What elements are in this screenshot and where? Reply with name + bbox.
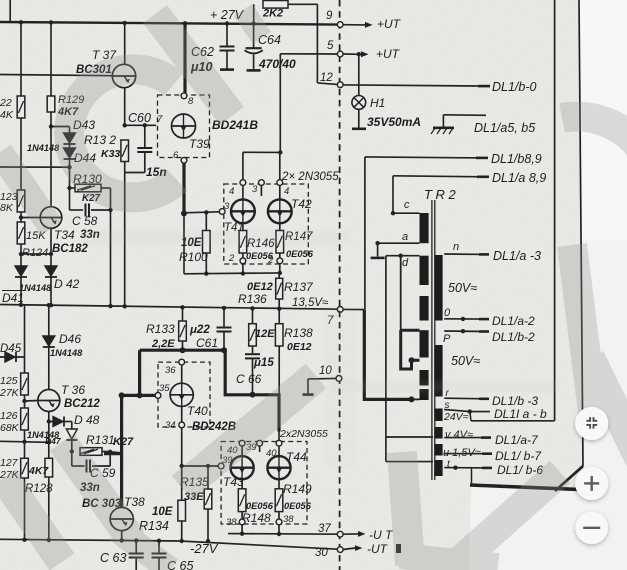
svg-text:0E056: 0E056 (286, 249, 314, 259)
wire rail-B upper (50, 22, 52, 96)
junction bus R135 (206, 539, 210, 543)
junction bold cross (137, 392, 143, 398)
resistor R100 (203, 231, 211, 254)
diode D42a (15, 266, 27, 276)
wire join R132-C60 (125, 172, 145, 174)
wire tap u left (386, 461, 433, 463)
resistor R127 (21, 458, 29, 478)
junction bus railA (19, 303, 23, 307)
wire R126 bottom (24, 430, 26, 442)
wire pin36 to T40 (181, 365, 183, 383)
wire rail-A lower (24, 305, 26, 373)
tick DL1/b-0 (478, 85, 490, 88)
wire R149 bottom (278, 512, 280, 519)
terminal T40 pin36 (179, 359, 185, 365)
resistor R129 (47, 96, 55, 112)
wire C65 down (158, 558, 160, 570)
transistor T36 (38, 390, 60, 412)
wire R147 bottom (279, 253, 281, 258)
capacitor C66 (245, 353, 260, 355)
watermark mid diagonal (182, 376, 316, 488)
tick b-7 (482, 452, 492, 455)
svg-text:DL1/b8,9: DL1/b8,9 (491, 152, 542, 166)
wire DL1/a8,9 (393, 176, 484, 177)
diode D42 (45, 266, 57, 276)
svg-text:4: 4 (284, 186, 289, 197)
terminal 9 (337, 22, 343, 28)
watermark bottom-left (62, 442, 132, 540)
junction y167 (67, 165, 71, 169)
capacitor C60 (137, 147, 152, 149)
svg-text:R138: R138 (284, 326, 313, 340)
wire R136-C66 (252, 346, 254, 353)
wire D48-D47 (64, 421, 72, 423)
capacitor C64 top lead (253, 24, 255, 48)
wire D47 top (71, 422, 73, 430)
junction rail-C64 (251, 22, 255, 26)
wire R123-R124 (20, 212, 22, 222)
dashed box T39 (158, 95, 210, 158)
wire R148 bottom (241, 512, 243, 519)
wire C60 bottom lead (144, 152, 146, 173)
wire DL1/b-3 (444, 397, 486, 400)
svg-text:DL1/b-0: DL1/b-0 (492, 80, 537, 94)
wire pin3 stub (260, 186, 262, 197)
svg-text:2: 2 (267, 255, 274, 266)
diode D46 (43, 336, 55, 346)
wire down to pin 12 (316, 4, 318, 83)
capacitor C62 (220, 46, 235, 48)
junction R135 top (206, 464, 210, 468)
svg-text:R136: R136 (238, 292, 267, 306)
junction C58 right (108, 208, 112, 212)
capacitor C64 plus plate (246, 47, 262, 49)
TR2 primary windings (420, 213, 429, 243)
junction b-2 (461, 329, 465, 333)
resistor R147 (276, 231, 284, 254)
terminal pin4 T41 (240, 180, 246, 186)
wire C66 bottom (252, 358, 254, 394)
thick bottom line (470, 485, 578, 489)
svg-text:2: 2 (228, 253, 235, 264)
svg-text:K33: K33 (101, 148, 120, 160)
svg-text:R133: R133 (146, 322, 175, 336)
svg-text:24V≈: 24V≈ (443, 411, 469, 423)
wire emitter bus y273 (184, 272, 280, 275)
resistor R124 (17, 222, 25, 244)
terminal 12 (337, 82, 343, 88)
svg-text:d: d (402, 257, 409, 269)
wire -UT 30 (343, 548, 355, 550)
terminal T39 pin6 (181, 157, 187, 163)
svg-text:DL1I a - b: DL1I a - b (494, 407, 547, 421)
svg-text:R137: R137 (284, 280, 314, 294)
wire tap s (444, 410, 470, 412)
svg-text:C60: C60 (128, 111, 151, 125)
svg-text:P: P (443, 333, 451, 345)
svg-text:37: 37 (318, 523, 331, 535)
wire T38 emitter (121, 531, 123, 541)
resistor R133 (179, 321, 187, 341)
wire T40 to pin34 (181, 406, 183, 422)
wire bold x121 down (120, 395, 123, 453)
wire R132 bottom (124, 162, 126, 173)
junction C61 bold (221, 347, 227, 353)
wire bold left drop (138, 350, 141, 395)
tick a-7 (481, 436, 491, 439)
junction bus T38 (120, 538, 124, 542)
terminal pin4 T42 (277, 180, 283, 186)
wire bold T39 collector (183, 23, 186, 93)
wire R146 bottom (242, 253, 244, 258)
arrow -UT 37 (358, 531, 366, 537)
wire emitter bus to 37 (228, 533, 337, 536)
terminal pin40 T43 (239, 440, 245, 446)
terminal 7 (337, 307, 343, 313)
svg-text:12: 12 (320, 72, 333, 84)
junction bus x124 (123, 304, 127, 308)
wire R135 lead (207, 466, 209, 489)
watermark letter C (69, 69, 177, 197)
wire to terminal 12 (317, 83, 337, 85)
svg-text:C 63: C 63 (100, 551, 126, 565)
transistor T44 (267, 456, 290, 479)
svg-text:K27: K27 (113, 436, 134, 448)
tick a-2 (479, 318, 489, 321)
svg-text:3: 3 (224, 201, 230, 212)
svg-text:T R 2: T R 2 (424, 187, 457, 202)
wire T44 emitter (278, 479, 280, 489)
wire DL1/a-2 (444, 318, 486, 320)
wire 13.5V bus (0, 305, 340, 310)
wire to terminal 5 (279, 54, 281, 153)
zoom in button (575, 467, 608, 500)
svg-text:0E056: 0E056 (246, 501, 274, 511)
junction C60 top (143, 123, 147, 127)
wire ground lead (442, 115, 444, 128)
wire tap v left (386, 436, 433, 438)
junction bus railB (49, 303, 53, 307)
junction tap r (409, 396, 415, 402)
svg-text:μ22: μ22 (189, 324, 210, 336)
wire C58 right (110, 188, 112, 210)
wire tap r (412, 398, 420, 400)
wire C58 right lead (91, 209, 111, 211)
wire comb down (385, 437, 387, 462)
junction bus R128 (47, 538, 51, 542)
wire pin40 to T44 (278, 446, 280, 456)
wire pin38b down (278, 525, 280, 534)
svg-text:T42: T42 (291, 197, 312, 211)
terminal pin38 T43 (239, 519, 245, 525)
transistor T41 (231, 199, 255, 223)
scan smudge bands (82, 230, 350, 245)
resistor R123 (17, 190, 25, 212)
junction R148 bus (240, 532, 244, 536)
junction bus x110 (108, 304, 112, 308)
svg-text:R124: R124 (22, 247, 48, 259)
wire rail-A upper (20, 22, 22, 96)
wire T34 emitter (50, 228, 52, 266)
diode D45 (5, 352, 15, 362)
terminal T40 pin35 (155, 393, 161, 399)
D41 overline (2, 290, 26, 292)
junction rail-R122 (19, 20, 23, 24)
wire x124 to bus (124, 173, 126, 307)
resistor R128 (45, 458, 53, 477)
svg-text:8K: 8K (0, 202, 14, 214)
svg-text:2,2E: 2,2E (151, 338, 175, 350)
wire R137 top (278, 273, 280, 278)
junction C61 (222, 306, 226, 310)
tick b89 (476, 157, 488, 160)
junction bus D46 (47, 303, 51, 307)
capacitor C65 lead (158, 541, 160, 553)
svg-text:6: 6 (173, 150, 179, 161)
wire T41 emitter (242, 223, 244, 230)
zoom out button (575, 512, 608, 545)
junction bus C63 (134, 538, 138, 542)
svg-text:T44: T44 (286, 450, 307, 464)
junction b-6 (453, 466, 457, 470)
resistor R146 (239, 231, 247, 254)
wire R134 top (181, 466, 183, 500)
junction rail-T37 (123, 21, 127, 25)
transistor T43 (231, 456, 254, 479)
wire -UT 37 (343, 533, 358, 535)
wire a89 down (392, 176, 394, 213)
transistor T42 (268, 199, 292, 223)
svg-text:125: 125 (0, 375, 18, 387)
terminal pin3 T41 base (219, 209, 225, 215)
wire R130 left lead (70, 187, 76, 189)
svg-text:DL1/b-2: DL1/b-2 (492, 330, 535, 344)
wire rail-A mid (20, 118, 22, 190)
wire DL1/b-0 (343, 85, 478, 86)
wire bold 13.5V to tap r (364, 310, 411, 400)
transistor T34 (40, 207, 62, 229)
wire bold tail to T44 (278, 432, 280, 441)
wire DL1/a-7 (444, 437, 489, 439)
wire D47 bottom (71, 440, 73, 452)
junction T42 bus (278, 271, 282, 275)
terminal pin2 T41 (240, 258, 246, 264)
svg-text:9: 9 (326, 10, 333, 22)
wire DL1/b-6 (444, 467, 490, 469)
wire R131 right lead (102, 451, 110, 453)
svg-text:470/40: 470/40 (258, 57, 296, 71)
junction T37-C60 (123, 123, 127, 127)
junction tap d (399, 254, 403, 258)
svg-text:2x2N3055: 2x2N3055 (279, 428, 328, 440)
wire to bold (110, 452, 121, 453)
junction bold corner (119, 392, 125, 398)
svg-text:v 4V≈: v 4V≈ (445, 429, 473, 441)
wire R127 bottom (24, 478, 26, 540)
junction R100 (204, 210, 208, 214)
resistor R131 (80, 448, 102, 456)
resistor R138 (275, 324, 283, 346)
wire link y254 (21, 253, 51, 255)
junction a-2 (461, 317, 465, 321)
dashed box T40 (158, 362, 210, 427)
wire T41 T42 collectors (243, 151, 280, 153)
connector dashed line (339, 0, 341, 570)
junction T39 emitter (181, 210, 187, 216)
wire b89 down (364, 157, 366, 310)
terminal pin2 T42 (277, 258, 283, 264)
svg-text:38: 38 (283, 514, 294, 525)
wire R125-R126 (24, 395, 26, 408)
svg-text:C61: C61 (196, 336, 218, 350)
ground (433, 127, 454, 130)
tick b-6 (482, 467, 492, 470)
capacitor C65 (152, 553, 167, 555)
wire pin2 down (242, 264, 244, 274)
svg-text:35: 35 (159, 383, 170, 394)
wire R127 top (24, 442, 26, 458)
wire +27V rail (0, 22, 340, 25)
svg-text:T40: T40 (187, 404, 208, 418)
svg-text:a: a (402, 231, 408, 243)
svg-text:4: 4 (229, 186, 234, 197)
junction y442 b (47, 440, 51, 444)
termination bar tap a (371, 257, 385, 260)
svg-text:DL1/a5, b5: DL1/a5, b5 (474, 121, 535, 135)
wire tap a (378, 242, 420, 244)
wire R128 top (48, 442, 50, 458)
junction R136 (250, 306, 254, 310)
svg-text:H1: H1 (370, 96, 385, 110)
svg-text:T 36: T 36 (61, 383, 85, 397)
wire 2K2 left lead (253, 4, 255, 23)
wire DL1/a-b (470, 411, 490, 413)
wire C63 down (135, 558, 137, 570)
wire D46 to T36 (48, 347, 50, 390)
wire D46 top (48, 305, 50, 336)
wire R134 bottom (181, 521, 183, 541)
junction D43 branch (49, 124, 53, 128)
wire pin40 to T43 (241, 446, 243, 456)
arrow -UT 30 (355, 545, 363, 551)
wire bold T39 emitter (182, 163, 185, 213)
wire R138 bottom (278, 346, 280, 395)
wire T37 emitter down (124, 88, 126, 126)
wire x110 to bus (110, 210, 112, 306)
wire C59 right lead (92, 465, 110, 467)
terminal 37 (337, 531, 343, 537)
resistor R149 (275, 489, 283, 512)
junction rail-T39 (183, 21, 187, 25)
svg-text:D45: D45 (0, 343, 22, 355)
wire +UT 5 (280, 53, 337, 55)
svg-text:7: 7 (157, 114, 163, 125)
svg-text:c: c (404, 199, 410, 211)
svg-text:27K: 27K (0, 387, 20, 399)
svg-text:μ15: μ15 (253, 357, 274, 369)
watermark right letters (562, 117, 627, 160)
wire T41 collector (242, 152, 244, 179)
wire bold to T40 (122, 394, 158, 397)
svg-text:5: 5 (327, 40, 334, 52)
wire DL1/b-7 (444, 453, 490, 455)
wire R133 top (182, 307, 184, 321)
svg-text:C 58: C 58 (72, 214, 98, 228)
svg-text:8: 8 (188, 96, 194, 107)
dashed box T41 T42 (224, 184, 308, 264)
C64 end bar (247, 69, 261, 72)
svg-text:+UT: +UT (377, 17, 402, 31)
wire D42 to bus (50, 277, 52, 306)
svg-text:30: 30 (315, 547, 328, 559)
junction y254 b (19, 252, 23, 256)
svg-text:2K2: 2K2 (262, 8, 283, 20)
wire 2K2 to pin12 column (288, 3, 317, 5)
svg-text:T39: T39 (189, 137, 210, 151)
wire T36 emitter (48, 412, 50, 443)
wire top stub (9, 0, 11, 22)
wire to a-b (471, 420, 555, 422)
svg-text:+UT: +UT (376, 47, 401, 61)
svg-text:n: n (453, 241, 459, 253)
transformer TR2 core line 2 (434, 200, 436, 480)
wire pin38 down (241, 525, 243, 534)
junction H1 (357, 52, 361, 56)
wire C62 bottom lead (226, 51, 228, 69)
watermark strokes top (155, 14, 232, 116)
capacitor C64 curved plate (245, 50, 263, 53)
junction bus C65 (157, 539, 161, 543)
svg-text:127: 127 (0, 457, 19, 469)
svg-text:68K: 68K (0, 422, 20, 434)
junction tap a (375, 241, 379, 245)
wire R137 bottom (278, 299, 280, 309)
junction y442 a (22, 440, 26, 444)
wire pin2b down (279, 264, 281, 273)
transistor T40 (170, 383, 193, 406)
wire D44 down (69, 159, 71, 188)
wire to T39 pin7 (125, 124, 157, 126)
junction y254 (49, 252, 53, 256)
svg-text:DL1/a 8,9: DL1/a 8,9 (492, 171, 546, 185)
arrow +UT 9 (365, 22, 373, 28)
junction R100 bus (204, 271, 208, 275)
wire C61 bottom (223, 332, 225, 351)
svg-text:R131: R131 (86, 433, 115, 447)
wire x184 down (183, 213, 185, 273)
junction tap f (409, 357, 415, 363)
svg-text:DL1/b -3: DL1/b -3 (492, 394, 538, 408)
junction rail-C62 (225, 21, 229, 25)
junction R133 bold (180, 347, 186, 353)
junction R137 bus (277, 307, 281, 311)
svg-text:3: 3 (252, 184, 258, 195)
terminal pin39 T43 base (218, 463, 224, 469)
H1 end bar (352, 128, 366, 131)
capacitor C58 (85, 204, 87, 217)
transistor T37 (112, 64, 135, 87)
resistor R126 (21, 408, 29, 430)
terminal 10 (336, 376, 342, 382)
wire R100 bottom (205, 253, 207, 274)
wire H1 top (358, 54, 360, 95)
tick a89 (477, 176, 489, 179)
svg-text:DL1/a -3: DL1/a -3 (493, 249, 541, 263)
transistor T39 (172, 114, 196, 138)
svg-text:R13 2: R13 2 (84, 133, 116, 147)
TR2 secondary windings (434, 255, 442, 321)
wire C61 top (223, 308, 225, 327)
